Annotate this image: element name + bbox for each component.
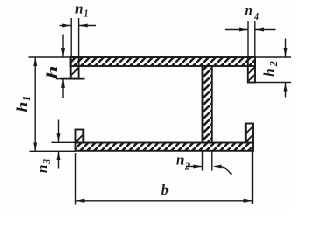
svg-text:h: h [44,65,60,79]
dimension h2 arrows [284,39,288,98]
dimension n4 extension lines [248,21,255,57]
dimension h arrows [61,35,65,99]
label b [161,182,169,199]
dimension n3 extension line [52,141,76,143]
top-right lip (width n4, height h2) [248,57,255,83]
svg-text:n: n [176,152,184,168]
svg-text:4: 4 [253,12,259,23]
label n1 [75,2,89,20]
label h1 (rotated) [14,96,33,113]
label n4 [245,3,260,23]
svg-text:n: n [75,2,83,18]
dimension n2 arrows [186,165,232,175]
svg-text:h: h [262,68,278,76]
label n3 (rotated) [35,159,53,173]
label h (rotated) [44,65,60,79]
dimension n1 arrows [60,24,97,28]
bottom-left lip (thickness n3 zone) [76,130,84,143]
svg-text:3: 3 [42,159,53,165]
label n2 [176,152,190,172]
dimension h extension line (lip bottom, extended left) [56,78,71,80]
dimension n1 extension lines [71,18,78,57]
svg-text:1: 1 [22,96,33,101]
dimension h2 extension lines [255,57,291,83]
dimension b line and arrows [76,199,253,203]
svg-text:2: 2 [269,61,280,67]
dimension n4 arrows [225,28,276,32]
top flange [71,57,256,66]
top-left lip (width n1, height h) [61,57,85,79]
svg-text:n: n [245,3,253,19]
svg-text:n: n [35,165,51,173]
svg-text:b: b [161,182,169,199]
bottom-right lip [246,124,253,143]
label h2 (rotated) [262,61,280,77]
central web (width n2) [203,66,212,143]
svg-text:2: 2 [184,162,190,173]
dimension n3 arrows [57,120,61,169]
dimension h1 extension lines [29,57,76,151]
dimension h1 line and arrows [33,57,37,152]
dimension b extension lines [76,151,253,205]
dimension n2 extension lines [203,151,212,171]
svg-text:1: 1 [84,9,89,20]
bottom flange [76,143,254,151]
svg-text:h: h [14,102,30,113]
